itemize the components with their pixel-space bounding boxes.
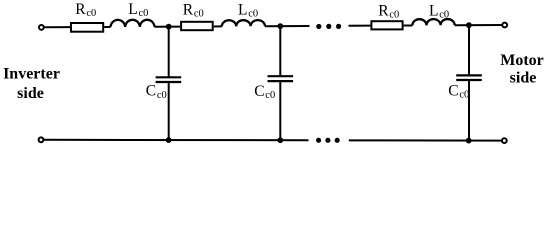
label R3 value R_c0	[378, 2, 399, 20]
svg-text:c0: c0	[139, 8, 149, 19]
junction bottom of C2	[277, 137, 283, 143]
wire C2 upper lead	[279, 26, 281, 76]
wire C1 lower lead	[168, 82, 170, 140]
wire top-rail: ellipsis gap to R3	[349, 25, 371, 27]
wire top-rail: R1 to L1	[104, 26, 110, 28]
text Inverter side	[3, 66, 60, 102]
wire top-rail: L3 to node C to motor terminal	[455, 24, 503, 26]
wire top-rail: R2 to L2	[214, 25, 222, 27]
wire bottom-rail right segment	[349, 139, 502, 141]
resistor R_c0 (section n)	[371, 21, 402, 29]
svg-text:side: side	[510, 70, 537, 87]
junction bottom of C3	[466, 138, 472, 144]
svg-text:c0: c0	[459, 90, 469, 101]
resistor R_c0 (section 2)	[181, 22, 213, 30]
text Motor side	[500, 52, 544, 86]
wire top-rail: R3 to L3	[404, 24, 413, 26]
label R1 value R_c0	[75, 1, 96, 19]
svg-text:R: R	[378, 2, 389, 19]
wire C1 upper lead	[168, 27, 170, 78]
inductor L_c0 (section 2)	[222, 20, 265, 26]
svg-text:c0: c0	[265, 90, 275, 101]
inductor L_c0 (section 1)	[111, 20, 155, 27]
svg-text:C: C	[254, 83, 264, 100]
junction bottom of C1	[166, 137, 172, 143]
ellipsis dots bottom rail	[316, 138, 340, 143]
svg-text:R: R	[183, 1, 194, 18]
svg-text:C: C	[146, 83, 156, 100]
junction node B (top of C2)	[277, 23, 283, 29]
label L3 value L_c0	[429, 2, 449, 20]
junction node C (top of C3)	[466, 22, 472, 28]
label R2 value R_c0	[183, 1, 204, 19]
wire C2 lower lead	[279, 81, 281, 140]
wire C3 upper lead	[468, 25, 470, 75]
svg-text:L: L	[429, 2, 438, 19]
svg-text:c0: c0	[194, 8, 204, 19]
svg-text:c0: c0	[86, 8, 96, 19]
svg-text:L: L	[128, 1, 137, 18]
wire top-rail: L1 to node A	[155, 26, 181, 28]
wire top-rail: L2 to node B then to ellipsis gap	[265, 25, 310, 27]
label L1 value L_c0	[128, 1, 148, 19]
svg-text:R: R	[75, 1, 86, 18]
wire bottom-rail left segment	[44, 139, 309, 141]
svg-text:c0: c0	[439, 9, 449, 20]
ellipsis dots top rail	[316, 24, 341, 29]
wire C3 lower lead	[468, 80, 470, 141]
capacitor C_c0 (section n) plates	[456, 75, 482, 80]
terminal inverter bottom	[39, 137, 44, 142]
svg-text:c0: c0	[248, 8, 258, 19]
wire top-rail: terminal to R1	[44, 26, 70, 28]
capacitor C_c0 (section 2) plates	[268, 76, 294, 81]
terminal motor top	[502, 23, 507, 28]
label C3 value C_c0	[448, 83, 469, 101]
svg-text:side: side	[17, 85, 44, 102]
capacitor C_c0 (section 1) plates	[156, 77, 182, 82]
resistor R_c0 (section 1)	[71, 23, 103, 32]
svg-text:c0: c0	[157, 90, 167, 101]
junction node A (top of C1)	[166, 24, 172, 30]
label C1 value C_c0	[146, 83, 167, 101]
svg-text:Motor: Motor	[500, 52, 544, 69]
terminal inverter top	[39, 25, 44, 30]
svg-text:L: L	[238, 1, 247, 18]
label C2 value C_c0	[254, 83, 275, 101]
label L2 value L_c0	[238, 1, 258, 19]
inductor L_c0 (section n)	[412, 19, 454, 25]
terminal motor bottom	[502, 138, 507, 143]
svg-text:C: C	[448, 83, 458, 100]
svg-text:Inverter: Inverter	[3, 66, 60, 83]
svg-text:c0: c0	[389, 9, 399, 20]
